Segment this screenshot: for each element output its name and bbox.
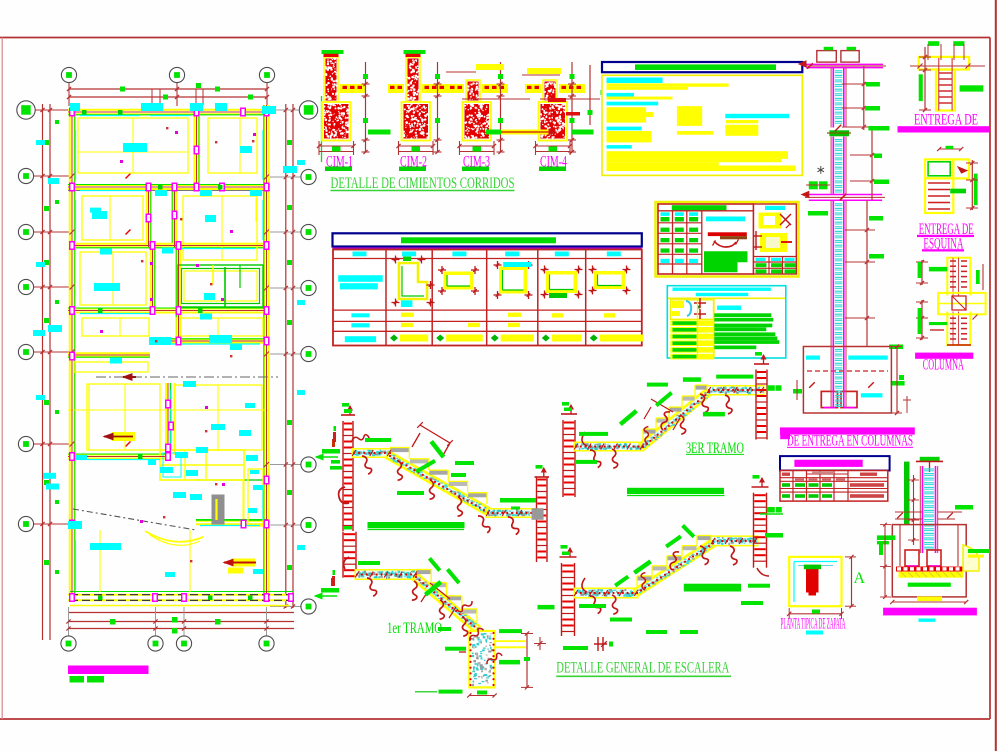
svg-text:1er TRAMO: 1er TRAMO	[387, 620, 442, 637]
svg-text:PLANTA TIPICA DE ZAPATA: PLANTA TIPICA DE ZAPATA	[781, 615, 846, 632]
svg-text:ENTREGA DE: ENTREGA DE	[914, 112, 978, 129]
svg-text:A: A	[854, 570, 866, 587]
svg-text:COLUMNA: COLUMNA	[923, 356, 964, 373]
svg-text:DETALLE DE CIMIENTOS CORRIDOS: DETALLE DE CIMIENTOS CORRIDOS	[331, 175, 515, 192]
svg-text:DETALLE GENERAL DE ESCALERA: DETALLE GENERAL DE ESCALERA	[556, 659, 729, 676]
